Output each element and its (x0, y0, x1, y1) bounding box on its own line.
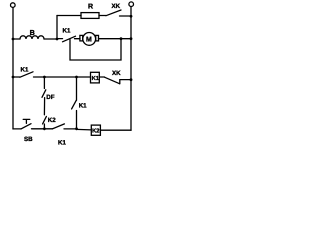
node junction motor-rail (130, 37, 133, 40)
motor M brush left (80, 35, 83, 41)
node junction XK-rail (130, 78, 133, 81)
wire contact to motor (75, 38, 81, 40)
node junction K1c-bottom (75, 127, 78, 130)
wire K2 to bottom rail (43, 124, 45, 129)
switch XK bottom blade (105, 77, 120, 84)
svg-text:K1: K1 (21, 66, 29, 73)
pushbutton SB blade (21, 124, 31, 129)
contact K1b blade (20, 72, 33, 77)
wire riser to top rail (56, 16, 58, 40)
contact K1c blade (72, 100, 77, 109)
contact K1d blade (52, 124, 64, 129)
wire DF-K2 link (43, 98, 45, 115)
resistor R (81, 13, 99, 19)
node junction loop-top (120, 37, 123, 40)
wire right rail (130, 7, 132, 131)
svg-text:B: B (30, 28, 35, 37)
svg-text:XK: XK (112, 70, 121, 77)
svg-text:SB: SB (24, 136, 33, 143)
node junction rail-control (12, 76, 15, 79)
switch XK top blade (106, 10, 121, 16)
svg-text:K1: K1 (79, 103, 87, 110)
node junction DF-branch (43, 76, 46, 79)
svg-text:K2: K2 (48, 117, 56, 124)
wire bottom rail mid2 (64, 128, 77, 130)
svg-text:M: M (86, 37, 92, 44)
svg-text:K2: K2 (92, 128, 99, 135)
wire coil lead left (13, 38, 20, 40)
motor M circle (83, 33, 96, 46)
wire to K2 box (77, 128, 92, 131)
wire bottom rail left (13, 128, 21, 130)
pushbutton SB cap (23, 118, 30, 120)
wire control line left (13, 76, 20, 78)
relay coil K2 box (91, 125, 100, 135)
svg-text:K1: K1 (92, 76, 100, 82)
inductor B electromagnet coil (20, 36, 44, 39)
node junction left-coil (12, 38, 15, 41)
relay coil K1 box (91, 72, 100, 83)
wire DF branch upper (43, 77, 45, 88)
contact K2 blade (43, 116, 47, 124)
wire contact K1a lead (57, 38, 63, 40)
svg-text:K1: K1 (58, 139, 66, 146)
node junction DF-bottom (43, 127, 46, 130)
wire left rail (12, 8, 14, 129)
wire motor to right rail (99, 38, 132, 40)
svg-text:K1: K1 (63, 27, 71, 34)
wire K2 box to right rail (100, 129, 131, 131)
terminal top-left (11, 3, 16, 8)
wire control line middle (34, 76, 91, 78)
wire K1c branch upper (76, 77, 78, 100)
svg-text:DF: DF (46, 94, 54, 101)
motor M brush right (96, 35, 99, 41)
switch XK bottom fixed contact (120, 80, 131, 84)
contact DF blade (42, 90, 46, 98)
node junction K1c-branch (75, 76, 78, 79)
wire K1c to bottom rail (76, 111, 78, 129)
svg-text:R: R (88, 4, 93, 11)
wire box to switch (99, 76, 104, 78)
node junction coil-right (56, 38, 59, 41)
svg-text:XK: XK (112, 3, 121, 10)
terminal top-right (129, 2, 134, 7)
node junction right rail top (130, 15, 133, 18)
wire switch to right rail (120, 15, 132, 17)
wire bypass loop under motor (70, 39, 121, 60)
contact K1a blade (63, 36, 76, 42)
wire coil lead right (44, 38, 57, 40)
pushbutton SB stem (25, 120, 27, 124)
wire top rail (57, 15, 81, 17)
wire bottom rail mid1 (32, 128, 53, 130)
wire resistor to switch (99, 15, 106, 17)
